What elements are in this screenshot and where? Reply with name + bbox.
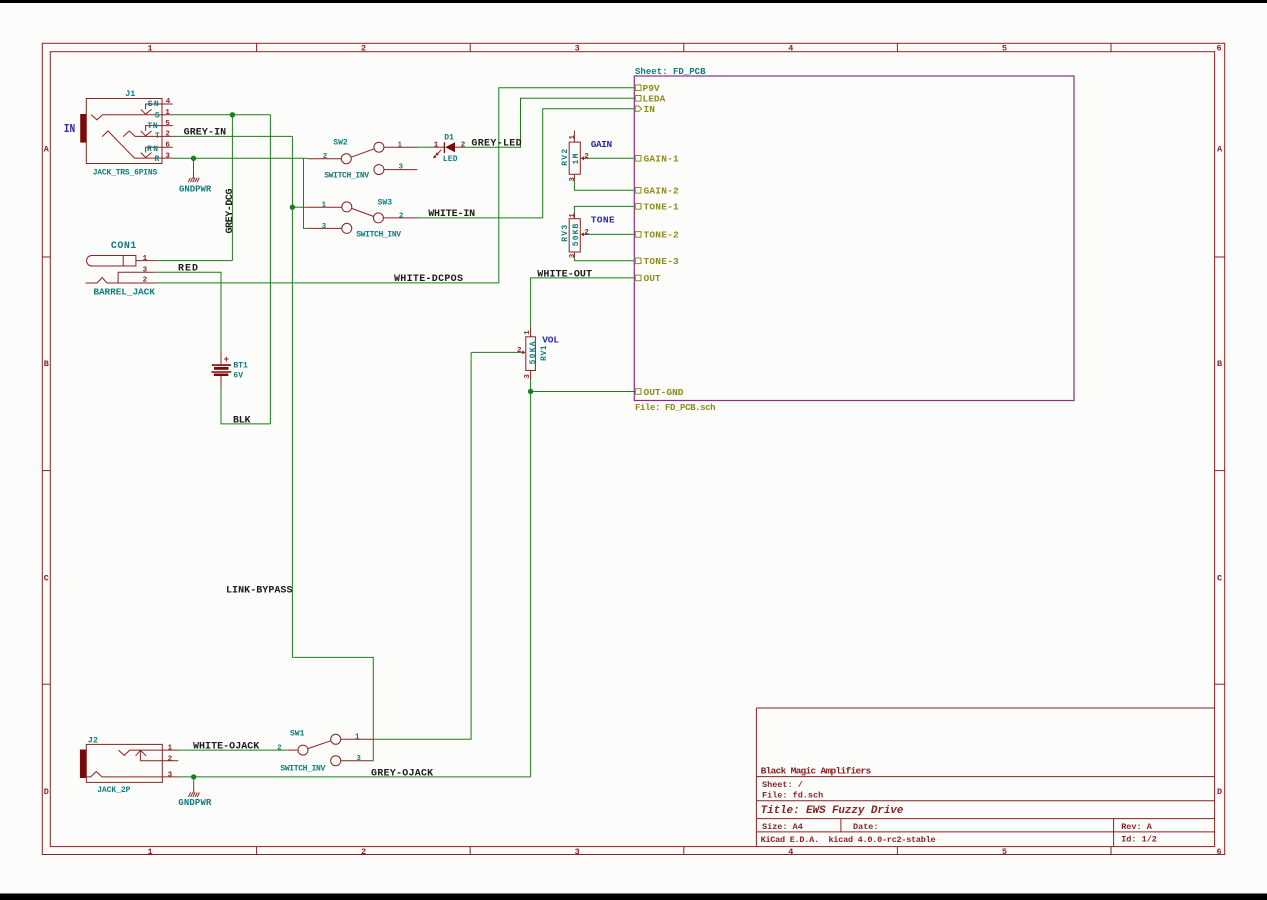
svg-text:1: 1 — [165, 109, 170, 117]
svg-text:4: 4 — [788, 44, 793, 54]
svg-text:1: 1 — [322, 202, 327, 210]
svg-text:2: 2 — [584, 229, 589, 237]
svg-text:WHITE-IN: WHITE-IN — [428, 209, 475, 220]
svg-text:GNDPWR: GNDPWR — [179, 184, 212, 194]
switch SW1 — [277, 729, 373, 773]
svg-text:B: B — [1217, 359, 1222, 369]
svg-text:R: R — [155, 155, 160, 164]
wire WHITE-OJACK — [178, 749, 288, 751]
sheet pin IN — [635, 104, 655, 115]
sheet pin GAIN-1 — [635, 154, 679, 165]
wire RED battery plus — [155, 272, 221, 353]
svg-text:RV1: RV1 — [540, 345, 549, 361]
svg-text:LINK-BYPASS: LINK-BYPASS — [226, 585, 293, 596]
svg-text:50KA: 50KA — [529, 341, 538, 364]
svg-text:6: 6 — [1216, 44, 1221, 54]
svg-text:WHITE-DCPOS: WHITE-DCPOS — [394, 274, 463, 285]
svg-text:File: FD_PCB.sch: File: FD_PCB.sch — [635, 403, 716, 413]
svg-text:3: 3 — [575, 847, 580, 857]
sheet pin GAIN-2 — [635, 186, 679, 197]
svg-text:Date:: Date: — [853, 822, 879, 832]
svg-text:1: 1 — [168, 745, 173, 753]
svg-text:GNDPWR: GNDPWR — [178, 798, 212, 808]
svg-text:T: T — [155, 132, 160, 141]
svg-text:1M: 1M — [572, 153, 581, 164]
svg-text:BLK: BLK — [233, 415, 251, 426]
svg-text:A: A — [1217, 145, 1223, 155]
sheet pin LEDA — [635, 94, 665, 105]
switch SW2 — [308, 139, 419, 181]
svg-text:1: 1 — [569, 135, 577, 140]
wire GREY-DCG vertical — [231, 115, 233, 261]
junction GREY-OJACK to GNDPWR — [191, 774, 196, 779]
LED D1 — [433, 134, 466, 164]
svg-text:3: 3 — [524, 374, 532, 379]
svg-text:2: 2 — [517, 347, 522, 355]
wire OUT-GND — [531, 391, 636, 393]
svg-text:OUT: OUT — [644, 273, 661, 284]
wire RV1 pin2 — [471, 351, 521, 353]
svg-text:IN: IN — [644, 104, 656, 115]
svg-text:B: B — [44, 359, 49, 369]
svg-text:SWITCH_INV: SWITCH_INV — [280, 764, 325, 773]
wire WHITE-DCPOS to P9V — [156, 88, 634, 283]
svg-text:WHITE-OUT: WHITE-OUT — [537, 269, 592, 280]
wire BLK bottom — [221, 387, 270, 424]
svg-text:2: 2 — [399, 212, 404, 220]
wire GREY-IN — [173, 135, 293, 137]
svg-text:GREY-IN: GREY-IN — [184, 128, 227, 139]
svg-text:3: 3 — [569, 253, 577, 258]
svg-text:SW1: SW1 — [290, 729, 305, 738]
wire GAIN-1 — [588, 157, 635, 159]
svg-text:D: D — [1217, 787, 1222, 797]
wire GAIN-2 — [574, 181, 634, 190]
svg-text:2: 2 — [584, 153, 589, 161]
svg-text:2: 2 — [323, 153, 328, 161]
sheet pin TONE-3 — [635, 256, 679, 267]
svg-text:GREY-LED: GREY-LED — [471, 139, 521, 150]
svg-text:S: S — [155, 112, 160, 121]
svg-text:File: fd.sch: File: fd.sch — [762, 791, 823, 801]
svg-text:1: 1 — [355, 734, 360, 742]
wire sleeve down from S — [269, 115, 271, 424]
svg-text:4: 4 — [788, 847, 793, 857]
svg-text:1: 1 — [147, 847, 152, 857]
svg-text:Size: A4: Size: A4 — [762, 822, 803, 832]
svg-text:CON1: CON1 — [111, 241, 136, 252]
svg-text:P9V: P9V — [643, 83, 660, 94]
top window border — [0, 0, 1267, 3]
svg-text:3: 3 — [399, 164, 404, 172]
svg-text:GAIN-2: GAIN-2 — [644, 186, 679, 197]
svg-text:6: 6 — [1216, 847, 1221, 857]
svg-text:JACK_2P: JACK_2P — [97, 786, 130, 795]
svg-text:LEDA: LEDA — [643, 94, 666, 105]
sheet pin OUT — [635, 273, 661, 284]
svg-text:2: 2 — [165, 131, 170, 139]
svg-text:Sheet: /: Sheet: / — [762, 780, 803, 790]
svg-text:3: 3 — [165, 152, 170, 160]
svg-text:J2: J2 — [88, 735, 98, 745]
svg-text:5: 5 — [1002, 44, 1007, 54]
svg-text:RV3: RV3 — [561, 225, 570, 242]
svg-text:SN: SN — [148, 100, 159, 109]
svg-text:GREY-OJACK: GREY-OJACK — [371, 768, 433, 779]
svg-text:2: 2 — [461, 142, 466, 150]
sheet pin TONE-1 — [635, 202, 679, 213]
wire CON1 pin1 to GREY-DCG — [155, 260, 232, 262]
svg-text:1: 1 — [569, 213, 577, 218]
svg-text:1: 1 — [143, 255, 148, 263]
svg-text:3: 3 — [569, 177, 577, 182]
svg-text:Black Magic Amplifiers: Black Magic Amplifiers — [761, 766, 872, 777]
wire GREY-LED — [462, 98, 634, 147]
svg-text:Id: 1/2: Id: 1/2 — [1121, 835, 1157, 845]
svg-text:RED: RED — [178, 264, 198, 275]
svg-text:2: 2 — [143, 277, 148, 285]
svg-text:RN: RN — [147, 145, 158, 154]
bottom window border — [0, 894, 1267, 900]
connector J1 — [80, 89, 173, 178]
wire TONE-3 — [574, 258, 634, 261]
connector J2 — [80, 735, 178, 795]
svg-text:1: 1 — [398, 141, 403, 149]
svg-text:D: D — [44, 787, 49, 797]
sheet pin OUT-GND — [635, 387, 683, 398]
svg-text:IN: IN — [64, 122, 76, 136]
svg-text:OUT-GND: OUT-GND — [644, 387, 684, 398]
svg-text:Rev: A: Rev: A — [1121, 822, 1153, 832]
svg-text:50KB: 50KB — [572, 224, 581, 247]
wire SW3 pin1 tap — [292, 206, 304, 208]
svg-text:3: 3 — [356, 755, 361, 763]
wire GREY-OJACK — [178, 776, 530, 778]
svg-text:GAIN: GAIN — [591, 139, 613, 150]
svg-text:GREY-DCG: GREY-DCG — [225, 189, 236, 234]
connector CON1 — [86, 241, 157, 297]
wire R net — [173, 157, 308, 159]
junction RV1 pin3 OUT-GND — [528, 389, 533, 394]
svg-text:2: 2 — [168, 755, 173, 763]
svg-text:1: 1 — [434, 142, 439, 150]
svg-text:3: 3 — [143, 266, 148, 274]
sheet pin TONE-2 — [635, 230, 679, 241]
svg-text:2: 2 — [361, 847, 366, 857]
wire WHITE-OUT to OUT — [531, 278, 635, 328]
svg-text:6V: 6V — [233, 371, 243, 380]
svg-text:VOL: VOL — [542, 334, 559, 345]
svg-text:6: 6 — [165, 141, 170, 149]
wires (green nets) — [155, 88, 635, 777]
svg-text:TONE-1: TONE-1 — [644, 202, 679, 213]
wire S from J1 pin1 — [173, 114, 271, 116]
svg-text:2: 2 — [277, 744, 282, 752]
svg-text:Title: EWS Fuzzy Drive: Title: EWS Fuzzy Drive — [761, 805, 904, 817]
svg-text:TN: TN — [147, 122, 157, 131]
svg-text:TONE: TONE — [591, 214, 615, 225]
battery BT1 — [211, 353, 248, 387]
power flag GNDPWR (output jack) — [178, 777, 212, 808]
potentiometer RV3 — [561, 212, 589, 258]
svg-text:SWITCH_INV: SWITCH_INV — [324, 172, 369, 181]
svg-text:TONE-2: TONE-2 — [644, 230, 679, 241]
svg-text:SWITCH_INV: SWITCH_INV — [356, 231, 401, 240]
svg-text:TONE-3: TONE-3 — [644, 256, 679, 267]
svg-text:D1: D1 — [444, 134, 454, 143]
svg-text:J1: J1 — [125, 89, 135, 99]
svg-text:4: 4 — [166, 98, 171, 106]
wire SW2 to LED — [418, 146, 433, 148]
svg-text:BARREL_JACK: BARREL_JACK — [93, 286, 155, 297]
potentiometer RV1 — [517, 328, 549, 380]
wire WHITE-IN — [418, 109, 634, 218]
wire LINK-BYPASS jog — [292, 657, 373, 760]
svg-text:2: 2 — [361, 44, 366, 54]
svg-text:C: C — [1217, 574, 1222, 584]
svg-text:JACK_TRS_6PINS: JACK_TRS_6PINS — [93, 168, 158, 177]
svg-text:LED: LED — [443, 155, 458, 164]
svg-text:1: 1 — [147, 44, 152, 54]
hierarchical sheet FD_PCB — [634, 67, 1074, 413]
power flag GNDPWR (input jack) — [179, 158, 212, 194]
svg-text:A: A — [44, 145, 50, 155]
wire TONE-1 — [574, 206, 634, 212]
title block — [756, 708, 1214, 847]
svg-text:3: 3 — [168, 771, 173, 779]
svg-text:5: 5 — [1002, 847, 1007, 857]
svg-text:+: + — [224, 355, 229, 365]
switch SW3 — [305, 199, 419, 240]
wire GREY-IN / LINK-BYPASS vertical — [291, 136, 293, 657]
junction R to GNDPWR — [191, 156, 196, 161]
svg-text:SW2: SW2 — [333, 139, 348, 148]
svg-text:SW3: SW3 — [378, 199, 393, 208]
wire RV1 wiper down to SW1 pin1 — [373, 352, 471, 739]
svg-text:5: 5 — [165, 120, 170, 128]
svg-text:1: 1 — [524, 330, 532, 335]
svg-text:KiCad E.D.A. kicad 4.0.0-rc2-: KiCad E.D.A. kicad 4.0.0-rc2-stable — [761, 835, 936, 845]
svg-text:BT1: BT1 — [233, 362, 248, 371]
svg-text:Sheet: FD_PCB: Sheet: FD_PCB — [635, 67, 706, 77]
svg-text:3: 3 — [575, 44, 580, 54]
wire R to SW3 pin3 — [304, 158, 308, 228]
junction SW3 pin1 — [290, 205, 295, 210]
potentiometer RV2 — [561, 131, 589, 182]
svg-text:C: C — [44, 574, 49, 584]
sheet pin P9V — [635, 83, 660, 94]
svg-text:RV2: RV2 — [561, 149, 570, 166]
svg-text:GAIN-1: GAIN-1 — [644, 154, 679, 165]
svg-text:WHITE-OJACK: WHITE-OJACK — [193, 742, 259, 753]
svg-text:3: 3 — [322, 223, 327, 231]
junction on S wire — [230, 112, 235, 117]
wire TONE-2 — [588, 233, 635, 235]
wire RV1 pin3 down to GREY-OJACK — [530, 379, 532, 777]
